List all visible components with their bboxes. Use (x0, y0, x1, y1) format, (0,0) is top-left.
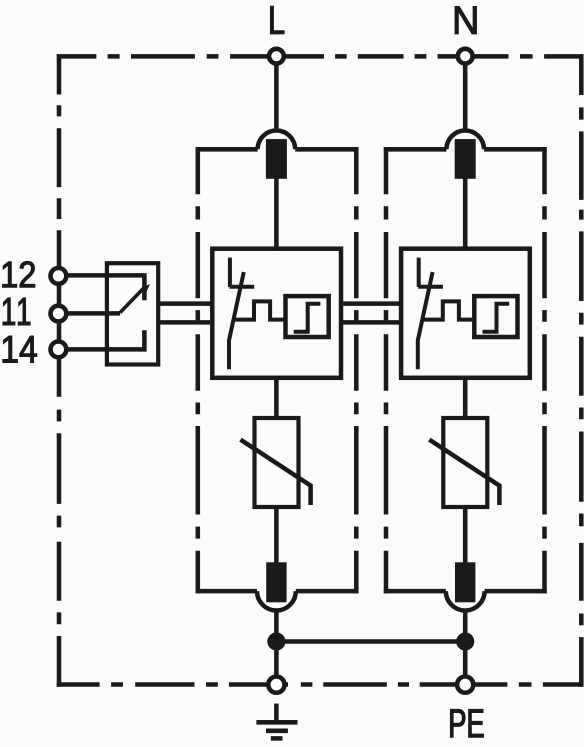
ground symbol (256, 704, 297, 739)
wire disconnector to switching element L (274, 178, 279, 252)
contact 12 lead (66, 275, 144, 300)
label 12 (3, 261, 35, 287)
wire L terminal to thermal disconnector (274, 64, 279, 130)
terminal L (269, 49, 284, 64)
varistor L slash (241, 440, 311, 505)
trigger unit N step symbol (483, 304, 510, 332)
wire lower disconnector to PE node N (463, 611, 468, 642)
contact 14 lead (66, 330, 144, 349)
coupling lines remote-contact to module L (158, 304, 212, 323)
protection module N dash-dot box (384, 147, 547, 593)
enclosure dash-dot border (device outline) (57, 54, 584, 687)
terminal N (458, 49, 473, 64)
label L (271, 6, 284, 34)
triggered spark-gap switching element N outer box (401, 249, 530, 378)
thermal disconnector (lower) N dome arc (446, 591, 485, 610)
varistor L body (255, 418, 299, 507)
junction dot N (456, 632, 474, 650)
PE bus wire between modules (276, 639, 465, 644)
terminal PE (457, 677, 473, 693)
thermal disconnector (upper) L dome arc (258, 130, 296, 149)
trigger unit L box (286, 296, 329, 337)
wire N terminal to thermal disconnector (463, 64, 468, 130)
wire N node to PE terminal (463, 642, 468, 679)
varistor N slash (429, 440, 499, 505)
label 14 (3, 336, 37, 362)
label 11 (3, 298, 30, 325)
trigger unit L step symbol (294, 304, 321, 332)
varistor N body (443, 418, 487, 507)
terminal 14 (51, 342, 67, 358)
label PE (450, 709, 483, 737)
terminal 11 (51, 306, 67, 322)
coupling lines module L to module N (341, 304, 400, 323)
wire varistor to lower disconnector N (463, 505, 468, 564)
thermal disconnector (upper) N contact bar (455, 139, 476, 179)
disconnect switch contact L (229, 258, 254, 370)
terminal ground (left) (268, 677, 284, 693)
thermal disconnector (upper) L contact bar (266, 139, 287, 179)
thermal disconnector (upper) N dome arc (446, 130, 484, 149)
wire L node to PE terminal (274, 642, 279, 679)
disconnect switch contact N (418, 258, 443, 370)
wire switching element to varistor L (274, 377, 279, 420)
terminal 12 (51, 268, 67, 284)
wire switching element to varistor N (463, 377, 468, 420)
thermal disconnector (lower) N contact bar (455, 562, 475, 602)
trigger unit N box (474, 296, 517, 337)
wire lower disconnector to PE node L (274, 611, 279, 642)
junction dot L (267, 632, 285, 650)
trigger impulse line N (422, 301, 473, 319)
triggered spark-gap switching element L outer box (212, 249, 341, 378)
remote signalling contact box (107, 263, 158, 364)
protection module L dash-dot box (196, 147, 359, 593)
contact 11 lead (common) (66, 311, 120, 316)
changeover switch blade (120, 284, 150, 313)
thermal disconnector (lower) L contact bar (266, 562, 286, 602)
thermal disconnector (lower) L dome arc (257, 591, 296, 610)
wire varistor to lower disconnector L (274, 505, 279, 564)
wire disconnector to switching element N (463, 178, 468, 252)
label N (455, 6, 476, 33)
trigger impulse line L (233, 301, 284, 319)
